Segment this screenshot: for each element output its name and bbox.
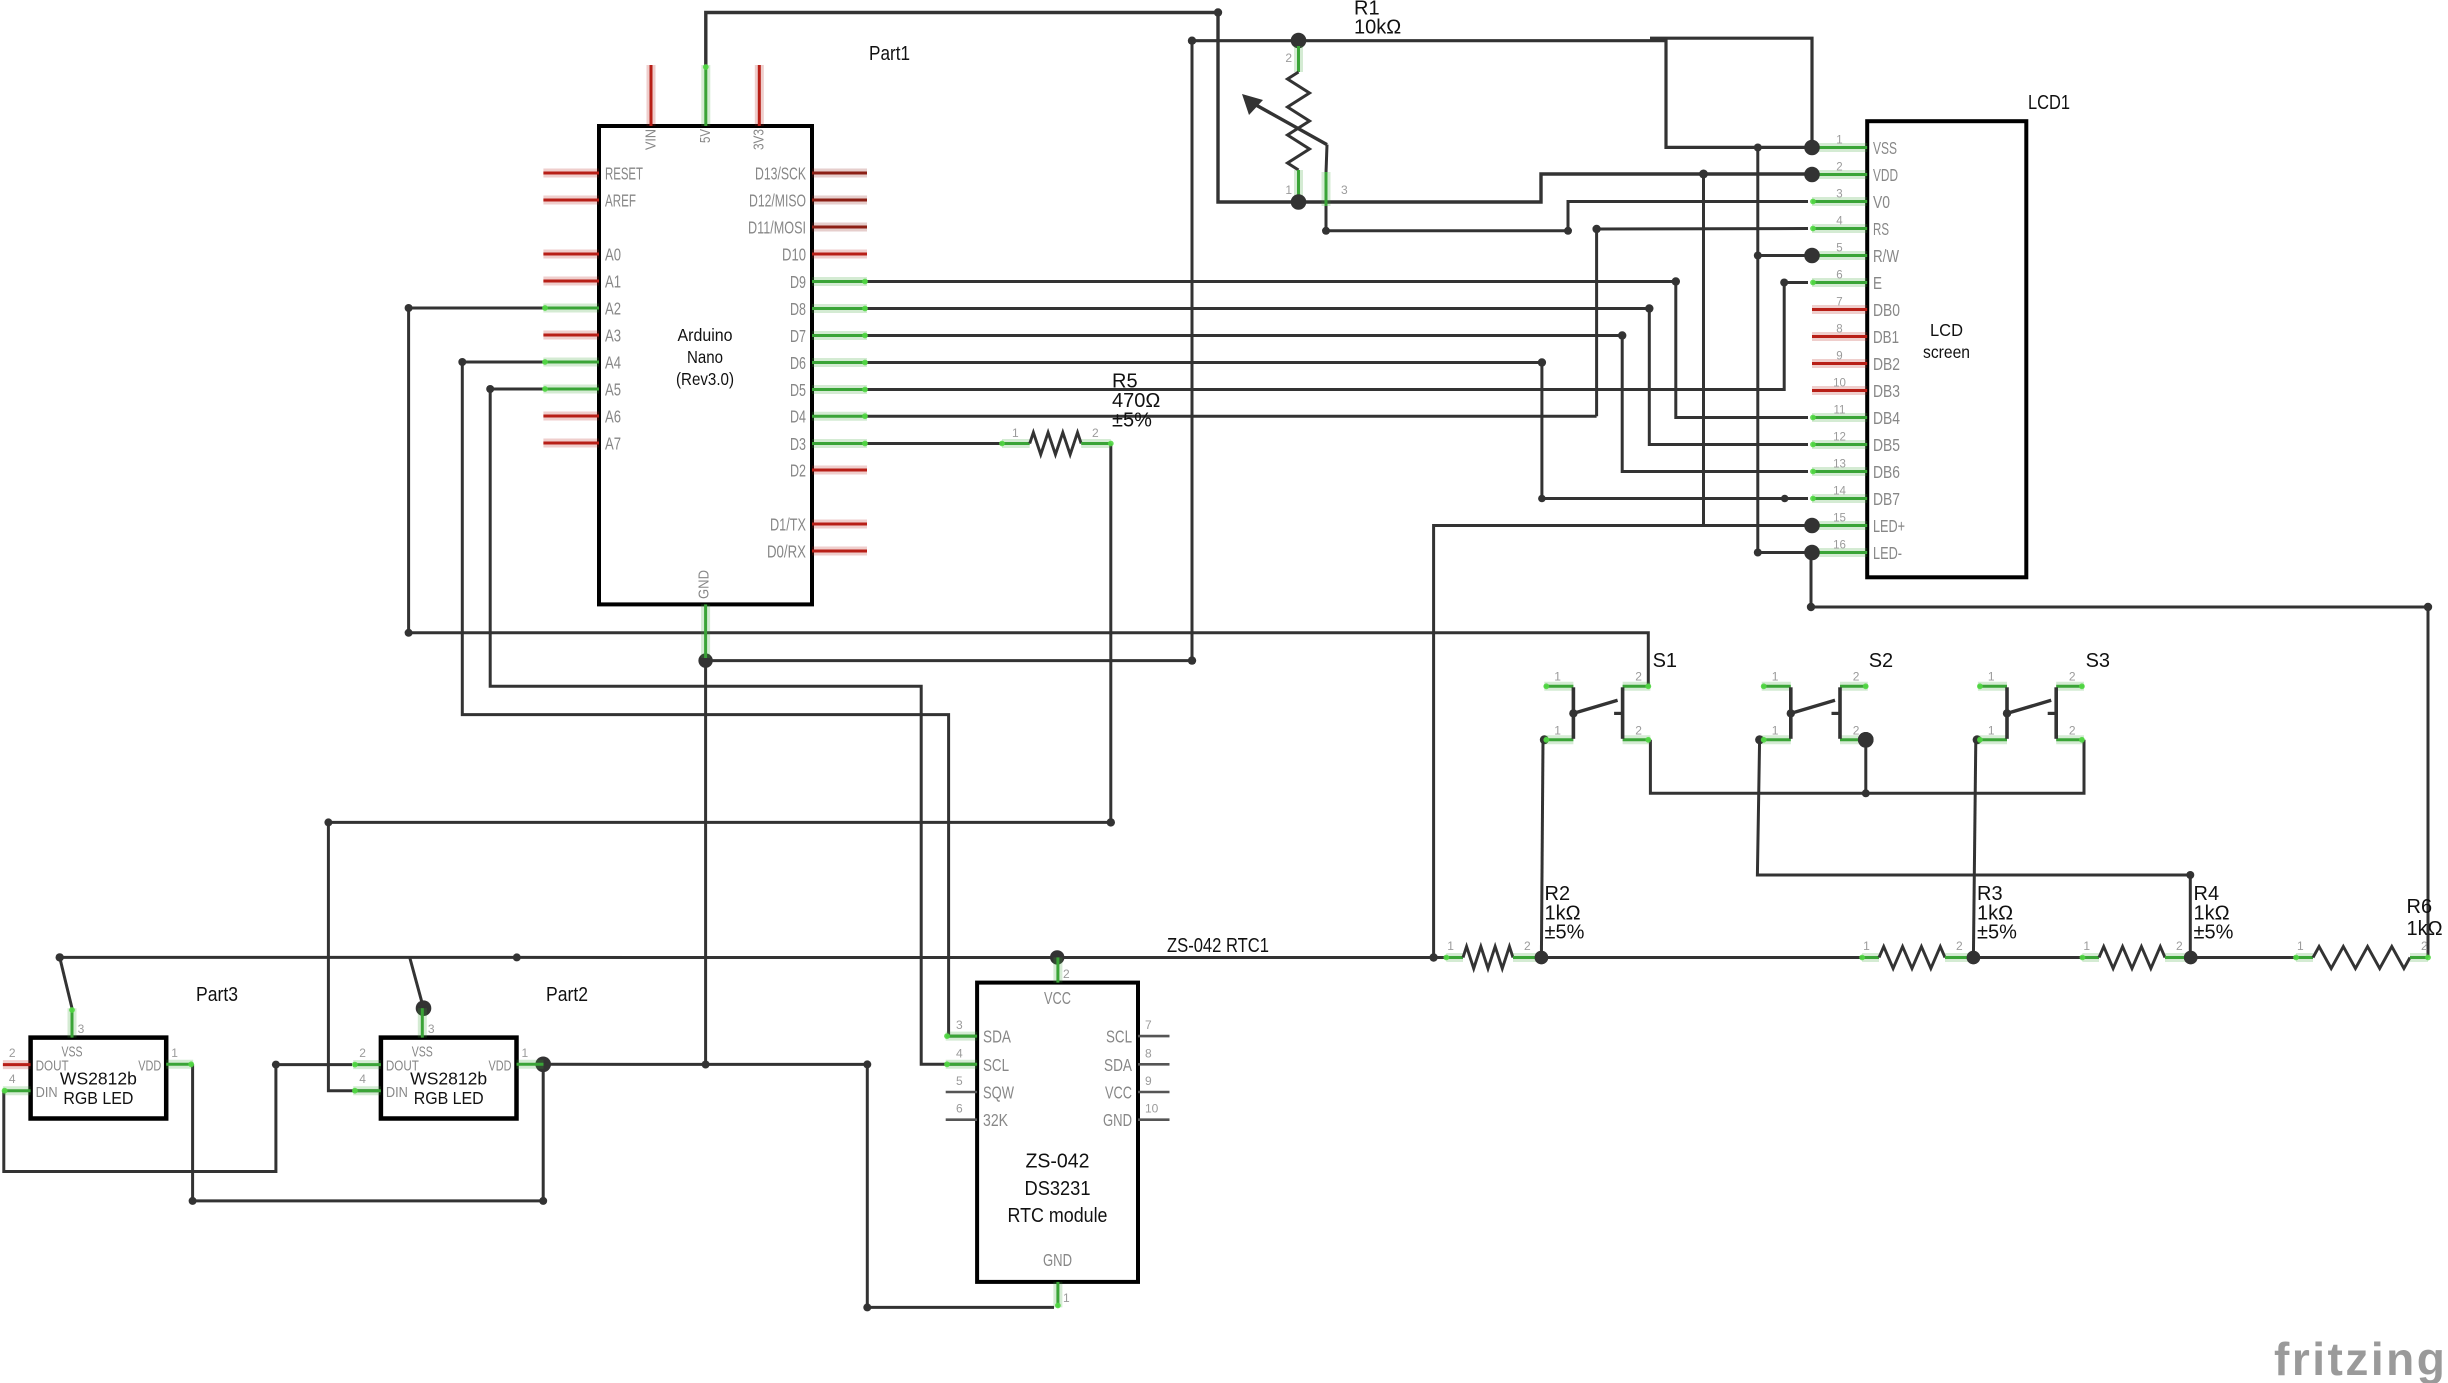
svg-text:2: 2 bbox=[1524, 939, 1531, 953]
svg-text:Arduino: Arduino bbox=[678, 325, 733, 345]
svg-text:6: 6 bbox=[956, 1102, 963, 1116]
svg-text:9: 9 bbox=[1836, 351, 1842, 363]
svg-text:32K: 32K bbox=[983, 1110, 1008, 1130]
wire D4-RS vertical bbox=[1595, 229, 1598, 416]
wire VDD branch down to LED+ line bbox=[1702, 174, 1705, 526]
svg-text:1: 1 bbox=[1063, 1291, 1070, 1305]
svg-text:D12/MISO: D12/MISO bbox=[749, 191, 806, 211]
svg-text:2: 2 bbox=[2176, 939, 2183, 953]
svg-text:1: 1 bbox=[2297, 939, 2304, 953]
wire ground vertical pot line down to Arduino GND line bbox=[1191, 41, 1194, 661]
svg-text:10kΩ: 10kΩ bbox=[1354, 17, 1401, 39]
pin 1 VDD of Part3 bbox=[166, 1060, 193, 1069]
svg-text:E: E bbox=[1873, 273, 1882, 293]
wire LED- to R6 bbox=[1811, 553, 2428, 958]
svg-text:Part1: Part1 bbox=[869, 43, 910, 65]
svg-text:2: 2 bbox=[2069, 724, 2076, 738]
wire switch pin2 tie S1 S2 S3 bbox=[1650, 740, 2084, 794]
svg-text:GND: GND bbox=[1103, 1110, 1132, 1130]
svg-text:±5%: ±5% bbox=[1112, 409, 1152, 431]
wire Arduino D4 row bbox=[867, 415, 1597, 418]
pin 2 VCC of RTC bbox=[1053, 957, 1062, 982]
svg-text:12: 12 bbox=[1833, 432, 1846, 444]
wire Part3 VSS to rail bbox=[60, 957, 72, 1008]
pin 3 SDA of RTC bbox=[946, 1032, 977, 1041]
resistor R6 bbox=[2293, 947, 2431, 969]
pin 11 DB4 of LCD1 bbox=[1812, 413, 1867, 422]
svg-text:A4: A4 bbox=[605, 353, 621, 373]
svg-text:2: 2 bbox=[1853, 670, 1860, 684]
wire +5V rail left section bbox=[60, 956, 1463, 959]
wire rail segment R3 to R4 bbox=[1973, 956, 2099, 959]
resistor R2 bbox=[1443, 947, 1548, 969]
svg-text:screen: screen bbox=[1923, 342, 1970, 362]
svg-text:RGB LED: RGB LED bbox=[414, 1088, 484, 1108]
svg-text:3V3: 3V3 bbox=[752, 129, 768, 150]
svg-text:13: 13 bbox=[1833, 459, 1846, 471]
svg-text:2: 2 bbox=[359, 1046, 366, 1060]
pin 1 VSS of LCD1 bbox=[1812, 143, 1867, 152]
pin D2 of Arduino bbox=[812, 466, 867, 475]
svg-text:DB3: DB3 bbox=[1873, 381, 1900, 401]
svg-text:DB6: DB6 bbox=[1873, 462, 1900, 482]
pin A5 of Arduino bbox=[543, 385, 599, 394]
svg-text:1: 1 bbox=[1554, 670, 1561, 684]
pin GND of Arduino bbox=[701, 604, 710, 658]
pin 2 DOUT of Part2 bbox=[353, 1060, 381, 1069]
svg-text:14: 14 bbox=[1833, 486, 1846, 498]
svg-text:GND: GND bbox=[1043, 1250, 1072, 1270]
svg-text:D0/RX: D0/RX bbox=[767, 542, 806, 562]
svg-text:A7: A7 bbox=[605, 434, 621, 454]
pin 10 DB3 of LCD1 bbox=[1812, 386, 1867, 395]
svg-text:16: 16 bbox=[1833, 540, 1846, 552]
svg-text:1: 1 bbox=[522, 1046, 529, 1060]
pin A6 of Arduino bbox=[543, 412, 599, 421]
pin 6 32K of RTC bbox=[946, 1118, 977, 1121]
pin 9 VCC of RTC bbox=[1138, 1091, 1170, 1094]
svg-text:(Rev3.0): (Rev3.0) bbox=[676, 369, 734, 389]
svg-text:8: 8 bbox=[1145, 1046, 1152, 1060]
svg-text:1: 1 bbox=[1836, 135, 1842, 147]
svg-text:A3: A3 bbox=[605, 326, 621, 346]
wire LCD ground bus VSS R/W LED- bbox=[1758, 148, 1812, 553]
svg-text:1kΩ: 1kΩ bbox=[2407, 918, 2443, 940]
svg-text:2: 2 bbox=[1836, 162, 1842, 174]
svg-text:8: 8 bbox=[1836, 324, 1842, 336]
wire S3 pin1 down to R3 bbox=[1973, 740, 1975, 958]
pin 4 DIN of Part2 bbox=[353, 1086, 381, 1095]
svg-text:A5: A5 bbox=[605, 380, 621, 400]
wire ground link Part3 VDD to Part2 VDD bbox=[193, 1064, 544, 1201]
pin 2 DOUT of Part3 bbox=[3, 1060, 31, 1069]
svg-text:3: 3 bbox=[428, 1022, 435, 1036]
wire R5 pin2 to Part2 DIN bbox=[328, 444, 1110, 1091]
wire pot wiper to LCD V0 bbox=[1326, 202, 1808, 231]
svg-text:2: 2 bbox=[1092, 426, 1099, 440]
node 5V corner bbox=[1214, 8, 1222, 16]
pin A0 of Arduino bbox=[543, 250, 599, 259]
svg-text:ZS-042: ZS-042 bbox=[1026, 1151, 1090, 1173]
svg-text:Part3: Part3 bbox=[196, 984, 238, 1006]
svg-text:D11/MOSI: D11/MOSI bbox=[748, 218, 806, 238]
pin 1 VDD of Part2 bbox=[517, 1060, 544, 1069]
LCD display LCD1 bbox=[1867, 121, 2026, 577]
svg-text:A2: A2 bbox=[605, 299, 621, 319]
svg-text:D2: D2 bbox=[790, 461, 806, 481]
pin D12/MISO of Arduino bbox=[812, 196, 867, 205]
svg-text:A1: A1 bbox=[605, 272, 621, 292]
pin D1/TX of Arduino bbox=[812, 520, 867, 529]
svg-text:1: 1 bbox=[1772, 724, 1779, 738]
svg-text:2: 2 bbox=[1063, 967, 1070, 981]
svg-text:±5%: ±5% bbox=[1977, 922, 2017, 944]
Arduino Nano Part1 bbox=[599, 126, 812, 604]
svg-text:9: 9 bbox=[1145, 1074, 1152, 1088]
svg-text:4: 4 bbox=[9, 1072, 16, 1086]
switch S3 pushbutton bbox=[1977, 683, 2085, 742]
WS2812b RGB LED Part3 box bbox=[31, 1038, 167, 1119]
svg-text:R6: R6 bbox=[2407, 896, 2433, 918]
resistor R3 bbox=[1859, 947, 1980, 969]
svg-text:1: 1 bbox=[171, 1046, 178, 1060]
svg-text:D4: D4 bbox=[790, 407, 806, 427]
svg-text:AREF: AREF bbox=[605, 191, 636, 211]
svg-text:2: 2 bbox=[9, 1046, 16, 1060]
svg-text:3: 3 bbox=[956, 1018, 963, 1032]
svg-text:D6: D6 bbox=[790, 353, 806, 373]
wire Arduino D3 to R5 bbox=[867, 442, 1007, 445]
pin 9 DB2 of LCD1 bbox=[1812, 359, 1867, 368]
svg-text:WS2812b: WS2812b bbox=[410, 1069, 487, 1089]
pin 5V of Arduino bbox=[701, 65, 710, 126]
svg-text:Part2: Part2 bbox=[546, 984, 588, 1006]
pin 14 DB7 of LCD1 bbox=[1812, 494, 1867, 503]
pin AREF of Arduino bbox=[543, 196, 599, 205]
resistor R5 470ohm bbox=[999, 433, 1114, 455]
pin D10 of Arduino bbox=[812, 250, 867, 259]
wire Arduino A5 to RTC SCL bbox=[490, 389, 975, 1064]
wire ground top line second segment to LCD VSS bbox=[1650, 38, 1812, 147]
svg-text:DB4: DB4 bbox=[1873, 408, 1900, 428]
svg-text:S3: S3 bbox=[2086, 650, 2110, 672]
wire Arduino D5 to LCD E bbox=[867, 283, 1808, 390]
svg-text:1: 1 bbox=[1012, 426, 1019, 440]
svg-text:VIN: VIN bbox=[644, 129, 660, 150]
pin D3 of Arduino bbox=[812, 439, 867, 448]
svg-text:RESET: RESET bbox=[605, 164, 643, 184]
svg-text:D1/TX: D1/TX bbox=[770, 515, 806, 535]
pin 3 VSS of Part2 bbox=[418, 1008, 427, 1037]
svg-text:7: 7 bbox=[1836, 297, 1842, 309]
pin D11/MOSI of Arduino bbox=[812, 223, 867, 232]
wire LCD RS from D4 jog bbox=[1597, 227, 1808, 231]
pin 7 SCL of RTC bbox=[1138, 1035, 1170, 1038]
node RTC VCC junction bbox=[1050, 950, 1064, 964]
svg-text:RS: RS bbox=[1873, 219, 1889, 239]
svg-text:RTC module: RTC module bbox=[1008, 1205, 1108, 1227]
svg-text:ZS-042 RTC1: ZS-042 RTC1 bbox=[1167, 935, 1269, 957]
svg-text:1: 1 bbox=[1988, 724, 1995, 738]
pin D0/RX of Arduino bbox=[812, 547, 867, 556]
svg-text:DB0: DB0 bbox=[1873, 300, 1900, 320]
pin A7 of Arduino bbox=[543, 439, 599, 448]
svg-text:DIN: DIN bbox=[36, 1084, 58, 1101]
potentiometer R1 10k bbox=[1242, 33, 1327, 231]
wire Arduino D6 to LCD DB7 bbox=[867, 363, 1808, 499]
svg-text:4: 4 bbox=[359, 1072, 366, 1086]
svg-text:DIN: DIN bbox=[386, 1084, 408, 1101]
pin RESET of Arduino bbox=[543, 169, 599, 178]
wire Arduino D7 to LCD DB6 bbox=[867, 336, 1808, 472]
svg-text:D8: D8 bbox=[790, 299, 806, 319]
wire ground line Part2 VDD to RTC GND bbox=[543, 1064, 1054, 1307]
svg-text:7: 7 bbox=[1145, 1018, 1152, 1032]
svg-text:2: 2 bbox=[1285, 51, 1292, 65]
svg-text:SDA: SDA bbox=[1104, 1055, 1132, 1075]
svg-text:DB2: DB2 bbox=[1873, 354, 1900, 374]
svg-text:6: 6 bbox=[1836, 270, 1842, 282]
svg-text:D13/SCK: D13/SCK bbox=[755, 164, 806, 184]
svg-text:5: 5 bbox=[1836, 243, 1842, 255]
svg-text:LED+: LED+ bbox=[1873, 516, 1905, 536]
pin 4 SCL of RTC bbox=[946, 1060, 977, 1069]
svg-text:WS2812b: WS2812b bbox=[60, 1069, 137, 1089]
svg-text:11: 11 bbox=[1834, 405, 1846, 417]
pin 10 GND of RTC bbox=[1138, 1118, 1170, 1121]
WS2812b RGB LED Part2 box bbox=[381, 1038, 517, 1119]
svg-text:D5: D5 bbox=[790, 380, 806, 400]
wire rail segment R2 to R3 bbox=[1541, 956, 1879, 959]
wire S1 pin1 down to R2 bbox=[1541, 740, 1543, 958]
pin D13/SCK of Arduino bbox=[812, 169, 867, 178]
wire 5V net from Arduino 5V pin to LCD VDD bbox=[706, 13, 1808, 203]
svg-text:15: 15 bbox=[1833, 513, 1846, 525]
switch S1 pushbutton bbox=[1543, 683, 1651, 742]
svg-text:D3: D3 bbox=[790, 434, 806, 454]
switch S2 pushbutton bbox=[1761, 683, 1874, 747]
pin 4 DIN of Part3 bbox=[3, 1086, 31, 1095]
svg-text:SCL: SCL bbox=[983, 1055, 1009, 1075]
svg-text:5: 5 bbox=[956, 1074, 963, 1088]
pin A4 of Arduino bbox=[543, 358, 599, 367]
svg-text:S1: S1 bbox=[1653, 650, 1677, 672]
svg-text:1: 1 bbox=[1988, 670, 1995, 684]
wire S2 pin1 down right down to R4 bbox=[1757, 740, 2190, 958]
wire Part3 DIN loop to Part2 DOUT bbox=[4, 1065, 352, 1172]
svg-text:Nano: Nano bbox=[687, 347, 723, 367]
svg-text:RGB LED: RGB LED bbox=[63, 1088, 133, 1108]
wire rail segment R4 to R6 bbox=[2191, 956, 2313, 959]
svg-text:LCD: LCD bbox=[1930, 320, 1963, 340]
pin VIN of Arduino bbox=[647, 65, 656, 126]
pin 6 E of LCD1 bbox=[1812, 278, 1867, 287]
svg-text:3: 3 bbox=[78, 1022, 85, 1036]
svg-text:2: 2 bbox=[1956, 939, 1963, 953]
svg-text:fritzing: fritzing bbox=[2274, 1333, 2447, 1383]
pin D8 of Arduino bbox=[812, 304, 867, 313]
pin 3 V0 of LCD1 bbox=[1812, 197, 1867, 206]
svg-text:A6: A6 bbox=[605, 407, 621, 427]
pin 16 LED- of LCD1 bbox=[1812, 548, 1867, 557]
pin D9 of Arduino bbox=[812, 277, 867, 286]
svg-text:1: 1 bbox=[1772, 670, 1779, 684]
svg-text:VDD: VDD bbox=[138, 1058, 161, 1075]
svg-text:VCC: VCC bbox=[1105, 1083, 1132, 1103]
svg-text:DB1: DB1 bbox=[1873, 327, 1899, 347]
pin 8 DB1 of LCD1 bbox=[1812, 332, 1867, 341]
wire ground top line pot pin2 to corner bbox=[1192, 41, 1808, 148]
svg-text:A0: A0 bbox=[605, 245, 621, 265]
svg-text:3: 3 bbox=[1341, 183, 1348, 197]
pin A1 of Arduino bbox=[543, 277, 599, 286]
svg-text:V0: V0 bbox=[1873, 192, 1890, 212]
wire Part2 VSS to rail bbox=[410, 957, 424, 1008]
svg-text:S2: S2 bbox=[1869, 650, 1893, 672]
pin 13 DB6 of LCD1 bbox=[1812, 467, 1867, 476]
pin A3 of Arduino bbox=[543, 331, 599, 340]
svg-text:VDD: VDD bbox=[489, 1058, 512, 1075]
svg-text:5V: 5V bbox=[698, 129, 714, 143]
wire Arduino A4 to RTC SDA bbox=[462, 362, 975, 1036]
pin 5 SQW of RTC bbox=[946, 1091, 977, 1094]
pin D6 of Arduino bbox=[812, 358, 867, 367]
svg-text:LCD1: LCD1 bbox=[2028, 92, 2070, 114]
svg-text:DS3231: DS3231 bbox=[1025, 1178, 1091, 1200]
RTC module ZS-042 box bbox=[977, 983, 1138, 1282]
svg-text:10: 10 bbox=[1833, 378, 1846, 390]
pin 7 DB0 of LCD1 bbox=[1812, 305, 1867, 314]
svg-text:±5%: ±5% bbox=[1545, 922, 1585, 944]
node Part2 VSS bbox=[416, 1000, 432, 1016]
svg-text:2: 2 bbox=[2421, 939, 2428, 953]
resistor R4 bbox=[2080, 947, 2198, 969]
svg-text:2: 2 bbox=[1635, 670, 1642, 684]
svg-text:R/W: R/W bbox=[1873, 246, 1899, 266]
pin 3V3 of Arduino bbox=[755, 65, 764, 126]
wire Arduino D8 to LCD DB5 bbox=[867, 309, 1808, 445]
svg-text:4: 4 bbox=[956, 1046, 963, 1060]
svg-text:4: 4 bbox=[1836, 216, 1843, 228]
svg-text:2: 2 bbox=[1853, 724, 1860, 738]
svg-text:SQW: SQW bbox=[983, 1083, 1014, 1103]
pin 12 DB5 of LCD1 bbox=[1812, 440, 1867, 449]
pin D5 of Arduino bbox=[812, 385, 867, 394]
svg-text:10: 10 bbox=[1145, 1102, 1159, 1116]
svg-text:1: 1 bbox=[1447, 939, 1454, 953]
pin 5 R/W of LCD1 bbox=[1812, 251, 1867, 260]
svg-text:D10: D10 bbox=[782, 245, 806, 265]
pin 4 RS of LCD1 bbox=[1812, 224, 1867, 233]
svg-text:1: 1 bbox=[2083, 939, 2090, 953]
svg-text:D7: D7 bbox=[790, 326, 806, 346]
svg-text:2: 2 bbox=[2069, 670, 2076, 684]
node Part2 VDD bbox=[535, 1057, 551, 1073]
pin 3 VSS of Part3 bbox=[68, 1008, 77, 1037]
svg-text:VDD: VDD bbox=[1873, 165, 1898, 185]
svg-text:D9: D9 bbox=[790, 272, 806, 292]
svg-text:1: 1 bbox=[1554, 724, 1561, 738]
svg-text:3: 3 bbox=[1836, 189, 1842, 201]
wire Arduino GND right bbox=[706, 659, 1192, 662]
svg-text:1: 1 bbox=[1285, 183, 1292, 197]
svg-text:±5%: ±5% bbox=[2194, 922, 2234, 944]
svg-text:VCC: VCC bbox=[1044, 988, 1071, 1008]
pin 15 LED+ of LCD1 bbox=[1812, 521, 1867, 530]
svg-text:1: 1 bbox=[1863, 939, 1870, 953]
wire Arduino D9 to LCD DB4 bbox=[867, 282, 1808, 418]
svg-text:2: 2 bbox=[1635, 724, 1642, 738]
svg-text:GND: GND bbox=[697, 570, 713, 599]
node S2 pin2 bbox=[1858, 732, 1874, 748]
wire Arduino GND down to WS2812 RTC ground line bbox=[704, 661, 707, 1065]
pin 8 SDA of RTC bbox=[1138, 1063, 1170, 1066]
svg-text:LED-: LED- bbox=[1873, 543, 1902, 563]
pin A2 of Arduino bbox=[543, 304, 599, 313]
svg-text:VSS: VSS bbox=[1873, 138, 1897, 158]
pin D4 of Arduino bbox=[812, 412, 867, 421]
svg-text:DB5: DB5 bbox=[1873, 435, 1900, 455]
svg-text:SDA: SDA bbox=[983, 1027, 1011, 1047]
wire Arduino A2 to switch S1 pin2 bbox=[409, 308, 1649, 686]
pin D7 of Arduino bbox=[812, 331, 867, 340]
svg-text:SCL: SCL bbox=[1106, 1027, 1132, 1047]
svg-text:DB7: DB7 bbox=[1873, 489, 1900, 509]
wire LCD LED+ to +5V rail bbox=[1434, 526, 1808, 958]
pin 2 VDD of LCD1 bbox=[1812, 170, 1867, 179]
